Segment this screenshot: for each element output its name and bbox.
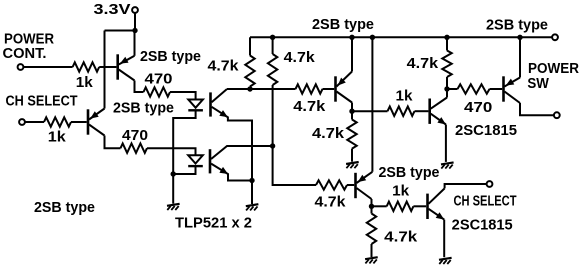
svg-text:CH SELECT: CH SELECT [6,94,78,110]
wire POWER CONT to R1 [24,66,73,68]
resistor R13 4.7k [367,214,376,245]
wire R14 to Q6 base [490,88,503,90]
wire photo emitter ground stem [251,181,253,205]
svg-text:4.7k: 4.7k [312,126,345,142]
wire Q7 emitter ground stem [443,220,445,258]
wire R10 to Q4 base [415,110,429,112]
svg-text:2SB type: 2SB type [312,17,374,33]
wire 3.3V rail to Q2 emitter column [105,30,136,32]
svg-text:470: 470 [145,72,173,88]
svg-text:470: 470 [464,100,492,116]
junction mid node A [247,86,252,91]
wire R8 to Q5 base [347,184,354,186]
svg-text:4.7k: 4.7k [284,50,316,66]
phototransistor U2 [209,149,212,173]
resistor R8 4.7k [316,180,347,189]
svg-text:3.3V: 3.3V [94,2,131,18]
wire R2 to Q2 base [71,121,87,123]
wire Q5 node to R13 [371,206,373,213]
wire Q4 node to R14 [447,88,458,90]
wire R11 ground stem [351,149,353,162]
junction 3.3V rail [132,28,137,33]
wire 3.3V stem [134,13,136,31]
wire Q5 collector to R12 [372,205,387,207]
transistor Q4 2SC1815 NPN [428,99,431,124]
wire R13 ground stem [371,244,373,257]
transistor Q1 2SB PNP [116,54,119,79]
LED D2 of optocoupler U2 [188,155,203,163]
resistor R5 4.7k [245,56,254,87]
svg-text:2SB type: 2SB type [140,49,201,65]
wire R5 to mid node [249,87,251,90]
svg-text:1k: 1k [76,75,94,91]
wire U2 collector [211,146,273,159]
svg-text:TLP521 x 2: TLP521 x 2 [175,216,252,232]
svg-text:1k: 1k [396,89,414,105]
junction U2 collector node [270,143,275,148]
ground Q7 emitter [439,258,452,260]
ground R13 [365,257,378,259]
wire U1 collector [212,89,227,102]
ground LED cathodes [167,204,180,206]
wire Q4 collector [446,89,448,98]
svg-text:POWER: POWER [528,61,579,77]
wire R9 to Q4 node [446,77,448,89]
wire Q3 node to R11 [351,111,353,119]
wire D1 cathode to ground bus [173,110,195,174]
junction rail Q3 emitter [349,35,354,40]
wire Q4 emitter ground stem [445,125,447,162]
svg-text:4.7k: 4.7k [315,195,347,211]
terminal CH SELECT output [487,181,493,187]
wire Q5 collector [371,199,373,206]
transistor Q6 2SB PNP [502,76,505,101]
junction Q5 collector node [369,204,374,209]
wire top supply rail [250,36,552,38]
wire Q6 collector to output [520,103,554,115]
phototransistor U1 [209,92,212,116]
wire Q2 collector to R4 [105,136,121,149]
svg-text:SW: SW [527,76,549,92]
resistor R11 4.7k [347,120,356,149]
wire mid node to R7 [227,88,296,90]
wire Q1 collector to R3 [135,81,144,93]
junction Q4 collector node [444,86,449,91]
wire CH SELECT to R2 [25,121,44,123]
wire Q6 emitter to rail [519,37,521,77]
svg-text:2SB type: 2SB type [34,200,95,216]
wire R12 to Q7 base [413,205,426,207]
resistor R9 4.7k [442,51,451,78]
arrow U2 emitter [219,167,228,174]
wire Q3 emitter to rail [351,37,353,71]
wire Q7 collector to output [445,184,487,188]
wire rail to R9 [446,37,448,50]
resistor R1 1k [73,62,100,71]
transistor Q2 2SB PNP [87,109,90,134]
resistor R3 470 [144,87,171,96]
svg-text:4.7k: 4.7k [293,99,326,115]
wire rail to R6 [272,37,274,54]
terminal CH SELECT input [19,119,25,125]
resistor R14 470 [458,84,490,93]
ground photo emitters [246,204,259,206]
svg-text:CONT.: CONT. [3,46,47,62]
transistor Q5 2SB PNP [354,173,357,198]
svg-text:CH SELECT: CH SELECT [454,194,517,210]
terminal 3.3V [132,7,138,13]
arrow U1 emitter [219,110,228,117]
wire Q3 collector to R10 [352,110,388,112]
wire R6 down to Q5 branch [273,85,316,185]
wire R1 to Q1 base [99,66,116,68]
wire Q5 emitter to rail [371,37,373,172]
svg-text:1k: 1k [392,184,410,200]
wire LED ground stem [172,174,174,204]
wire U2 emitter [211,164,252,181]
wire U1 emitter [212,107,252,181]
junction Q3 collector node [349,109,354,114]
svg-text:2SB type: 2SB type [379,165,440,181]
svg-text:2SC1815: 2SC1815 [452,218,513,234]
svg-text:1k: 1k [48,130,67,146]
resistor R6 4.7k [268,54,277,85]
junction rail Q5 emitter [370,35,375,40]
junction rail R5 [270,35,275,40]
svg-text:2SB type: 2SB type [486,18,548,34]
wire rail corner to R5 [249,37,251,55]
resistor R10 1k [388,107,415,116]
junction rail Q6 emitter [517,35,522,40]
wire Q1 emitter to 3.3V [134,31,136,56]
wire Q2 emitter to 3.3V rail [104,31,106,109]
wire Q3 collector [351,103,353,112]
wire R4 to LED2 anode [147,148,196,155]
junction rail R9 [444,35,449,40]
resistor R2 1k [44,117,71,126]
terminal POWER CONT input [18,64,24,70]
terminal POWER SW output [554,112,560,118]
svg-text:4.7k: 4.7k [407,56,439,72]
svg-text:4.7k: 4.7k [384,230,418,246]
resistor R12 1k [387,202,414,211]
resistor R7 4.7k [296,84,323,93]
resistor R4 470 [121,144,148,153]
wire R3 to LED1 anode [170,92,196,100]
ground Q4 emitter [441,162,454,164]
wire D2 cathode to ground bus [173,166,195,174]
junction LED cathodes [171,171,176,176]
svg-text:2SC1815: 2SC1815 [455,123,517,139]
wire R7 to Q3 base [323,88,335,90]
terminal rail right end [552,34,558,40]
junction photo emitters [249,178,254,183]
transistor Q7 2SC1815 NPN [426,194,429,219]
transistor Q3 2SB PNP [334,76,337,101]
svg-text:4.7k: 4.7k [208,59,240,75]
ground R11 [346,162,359,164]
svg-text:2SB type: 2SB type [113,101,174,117]
svg-text:470: 470 [122,128,148,144]
LED D1 of optocoupler U1 [188,100,203,108]
